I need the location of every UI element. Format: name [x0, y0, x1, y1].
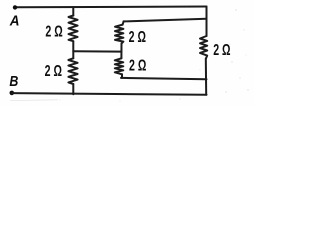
wire bottom rail B to right	[12, 93, 207, 95]
svg-text:A: A	[9, 12, 20, 29]
wire centre branch bottom lead	[121, 74, 123, 78]
wire centre branch top lead	[123, 21, 124, 24]
wire left branch top lead	[72, 7, 74, 16]
resistor R4 2ohm centre lower	[115, 58, 124, 74]
svg-text:2 Ω: 2 Ω	[129, 28, 147, 46]
resistor R5 2ohm right	[200, 36, 207, 59]
svg-text:2 Ω: 2 Ω	[45, 22, 63, 40]
resistor R1 2ohm left upper	[69, 16, 78, 42]
scan smudge artifact below B rail	[10, 99, 58, 102]
resistor R2 2ohm left lower	[68, 58, 77, 84]
svg-text:2 Ω: 2 Ω	[45, 62, 63, 80]
wire left branch bottom lead	[72, 84, 74, 94]
wire right branch bottom lead	[205, 59, 207, 95]
resistor R3 2ohm centre upper	[115, 25, 123, 44]
wire top rail A to right	[15, 6, 207, 9]
node A	[13, 5, 17, 9]
svg-text:2 Ω: 2 Ω	[129, 57, 147, 75]
wire centre branch middle segment	[120, 44, 122, 59]
wire inner top rail	[124, 19, 207, 22]
scan speckle noise	[60, 9, 249, 101]
svg-text:2 Ω: 2 Ω	[213, 41, 231, 59]
wire middle connecting left and centre branches	[73, 50, 121, 52]
wire left branch middle segment	[72, 41, 74, 58]
svg-text:B: B	[9, 73, 18, 89]
wire inner bottom rail	[121, 78, 207, 79]
node B	[10, 91, 15, 96]
wire right branch top lead	[206, 7, 208, 37]
